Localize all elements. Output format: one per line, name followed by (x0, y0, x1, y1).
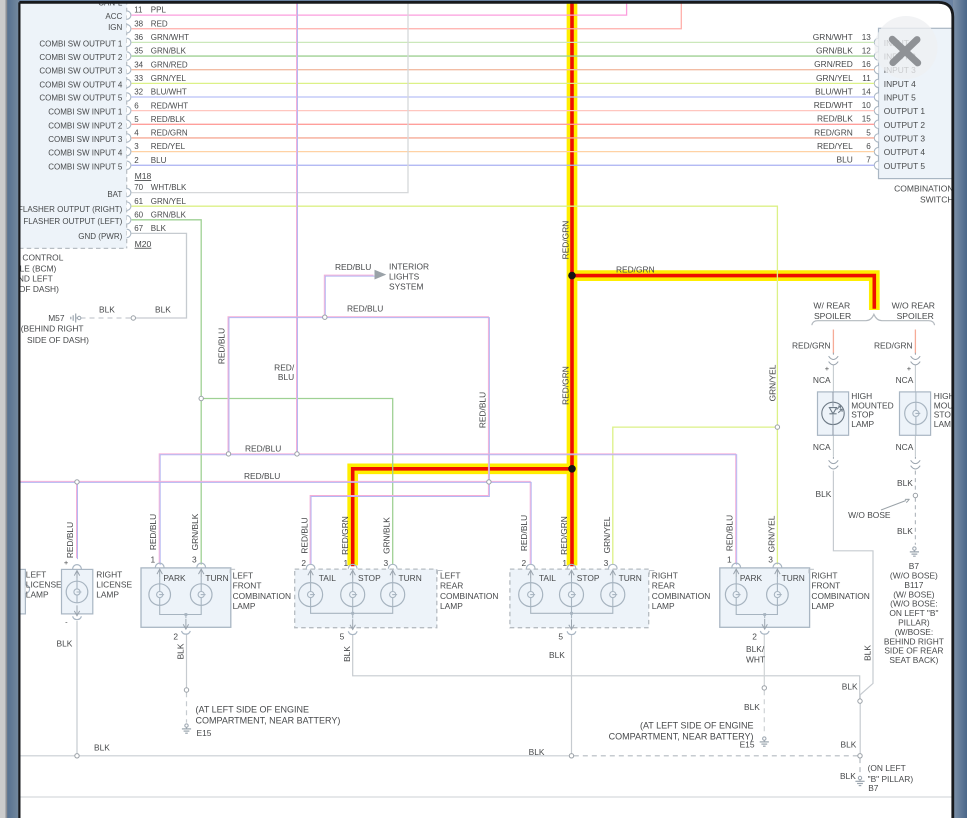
svg-text:RED/BLU: RED/BLU (725, 515, 735, 551)
svg-text:LAMP: LAMP (26, 590, 49, 600)
svg-text:FRONT: FRONT (811, 581, 840, 591)
svg-text:STOP: STOP (358, 573, 381, 583)
svg-text:LICENSE: LICENSE (26, 580, 62, 590)
svg-text:2: 2 (301, 558, 306, 568)
svg-text:38: 38 (134, 19, 143, 28)
wire BLU pin 2 to switch pin 7 (132, 155, 875, 166)
svg-text:GRN/YEL: GRN/YEL (602, 516, 612, 553)
svg-text:7: 7 (866, 156, 871, 165)
wire GRN/YEL pin 33 to switch pin 11 (132, 73, 875, 84)
svg-text:M57: M57 (48, 313, 65, 323)
svg-text:RED/: RED/ (274, 362, 295, 372)
node BLK connector right front (762, 686, 766, 690)
svg-text:RED/BLU: RED/BLU (519, 515, 529, 551)
svg-text:OUTPUT 5: OUTPUT 5 (884, 161, 926, 171)
svg-text:TURN: TURN (399, 573, 422, 583)
ground E15 at left side of engine compartment (right) (609, 721, 769, 750)
svg-text:SWITCH: SWITCH (920, 194, 954, 204)
left license lamp (clipped at page edge) (4, 569, 62, 614)
svg-text:GRN/YEL: GRN/YEL (151, 74, 187, 83)
wire GND (PWR) BLK pin 67 to M57 (81, 224, 187, 318)
svg-text:OUTPUT 2: OUTPUT 2 (884, 120, 926, 130)
svg-text:RED/BLU: RED/BLU (216, 328, 226, 364)
svg-text:BLK: BLK (897, 526, 913, 536)
svg-text:3: 3 (604, 558, 609, 568)
svg-text:PARK: PARK (740, 573, 763, 583)
svg-text:TURN: TURN (782, 573, 805, 583)
svg-text:RED: RED (151, 19, 168, 28)
svg-text:COMBI SW INPUT 4: COMBI SW INPUT 4 (48, 149, 123, 158)
wire FLASHER OUTPUT (RIGHT) GRN/YEL pin 61 (132, 197, 778, 427)
svg-text:FRONT: FRONT (233, 581, 262, 591)
svg-text:COMBI SW OUTPUT 2: COMBI SW OUTPUT 2 (39, 53, 123, 62)
svg-text:2: 2 (752, 631, 757, 641)
wire BLK/WHT right front lamp pin 2 to E15 (744, 635, 765, 736)
wire BLK left front lamp pin 2 to E15 (176, 635, 187, 723)
svg-text:RED/BLK: RED/BLK (817, 114, 853, 124)
svg-text:RIGHT: RIGHT (652, 570, 678, 580)
svg-text:6: 6 (866, 142, 871, 151)
svg-text:INPUT 4: INPUT 4 (884, 79, 916, 89)
svg-text:COMBI SW OUTPUT 3: COMBI SW OUTPUT 3 (39, 67, 123, 76)
node RED/BLU junction right rear tail (487, 480, 491, 484)
svg-text:14: 14 (862, 87, 872, 96)
svg-text:RED/BLU: RED/BLU (300, 517, 310, 553)
svg-text:OUTPUT 4: OUTPUT 4 (884, 147, 926, 157)
svg-text:GRN/WHT: GRN/WHT (813, 32, 853, 42)
svg-text:TAIL: TAIL (539, 573, 556, 583)
svg-text:SPOILER: SPOILER (897, 311, 934, 321)
svg-text:RED/BLU: RED/BLU (335, 262, 371, 272)
svg-text:+: + (825, 364, 830, 373)
svg-text:(ON LEFT: (ON LEFT (868, 763, 906, 773)
svg-text:GND (PWR): GND (PWR) (78, 232, 122, 241)
ground E15 at left side of engine compartment (left) (182, 705, 340, 738)
svg-text:RED/YEL: RED/YEL (817, 141, 853, 151)
svg-text:BLU/WHT: BLU/WHT (151, 88, 187, 97)
wire RED/WHT pin 6 to switch pin 10 (132, 100, 875, 111)
svg-text:61: 61 (134, 197, 143, 206)
interior lights system off-page arrow (375, 261, 430, 291)
svg-text:BLK/: BLK/ (746, 644, 765, 654)
svg-text:NCA: NCA (813, 442, 831, 452)
svg-text:RED/GRN: RED/GRN (874, 340, 913, 350)
svg-text:RED/GRN: RED/GRN (340, 516, 350, 555)
wire BLK left rear lamp pin 5 ground run (342, 635, 860, 700)
svg-text:6: 6 (134, 101, 139, 110)
combination switch connector box (874, 28, 953, 204)
svg-text:BLK: BLK (816, 489, 832, 499)
svg-text:4: 4 (134, 129, 139, 138)
node ground bus right (858, 754, 862, 758)
wire RED/GRN pin 4 to switch pin 5 (132, 127, 875, 138)
wire BAT WHT/BLK pin 70 (132, 0, 409, 193)
svg-text:11: 11 (862, 74, 871, 83)
ground M57 behind right side of dash (21, 313, 89, 345)
svg-text:RED/BLU: RED/BLU (347, 304, 383, 314)
high mounted stop lamp (w/ rear spoiler) LED (818, 353, 894, 469)
svg-text:BLK: BLK (841, 739, 857, 749)
svg-text:LAMP: LAMP (851, 419, 874, 429)
svg-text:BLU: BLU (837, 155, 853, 165)
svg-text:(AT LEFT SIDE OF ENGINE: (AT LEFT SIDE OF ENGINE (640, 721, 754, 731)
svg-text:GRN/YEL: GRN/YEL (767, 364, 777, 401)
svg-text:3: 3 (768, 555, 773, 565)
svg-text:(BEHIND RIGHT: (BEHIND RIGHT (21, 324, 84, 334)
svg-text:RED/GRN: RED/GRN (560, 221, 570, 260)
node BLK connector left front (184, 688, 188, 692)
svg-text:ACC: ACC (105, 12, 122, 21)
svg-text:B7: B7 (868, 783, 879, 793)
node splice on GND BLK wire (131, 316, 135, 320)
svg-text:COMBI SW OUTPUT 5: COMBI SW OUTPUT 5 (39, 94, 123, 103)
wire BLK right license lamp ground (57, 618, 78, 756)
svg-text:E15: E15 (197, 728, 212, 738)
svg-text:1: 1 (344, 558, 349, 568)
wire FLASHER OUTPUT (LEFT) GRN/BLK pin 60 (132, 210, 202, 564)
left rear combination lamp with TAIL STOP TURN bulbs (295, 558, 499, 641)
svg-text:WHT/BLK: WHT/BLK (151, 183, 187, 192)
wire GRN/RED pin 34 to switch pin 16 (132, 59, 875, 70)
svg-text:PARK: PARK (163, 573, 186, 583)
svg-text:RED/WHT: RED/WHT (151, 101, 188, 110)
svg-text:60: 60 (134, 210, 143, 219)
svg-text:36: 36 (134, 33, 143, 42)
svg-text:LAMP: LAMP (96, 590, 119, 600)
wire BLK ground bus to B7 (19, 743, 860, 781)
svg-text:COMBI SW INPUT 2: COMBI SW INPUT 2 (48, 122, 123, 131)
svg-text:BLU: BLU (151, 156, 167, 165)
node W/O BOSE junction (913, 493, 917, 497)
svg-text:W/ REAR: W/ REAR (813, 301, 850, 311)
svg-text:COMBI SW INPUT 3: COMBI SW INPUT 3 (48, 135, 123, 144)
svg-text:COMBINATION: COMBINATION (652, 591, 710, 601)
ground B7/B117 for w/o rear spoiler lamp (884, 547, 944, 665)
svg-text:SYSTEM: SYSTEM (389, 282, 423, 292)
svg-text:REAR: REAR (440, 581, 463, 591)
svg-text:LEFT: LEFT (26, 569, 46, 579)
svg-text:GRN/BLK: GRN/BLK (382, 517, 392, 554)
svg-text:5: 5 (866, 128, 871, 137)
svg-text:GRN/RED: GRN/RED (814, 59, 853, 69)
svg-text:GRN/RED: GRN/RED (151, 60, 188, 69)
svg-text:BLK: BLK (151, 224, 167, 233)
svg-text:W/O BOSE: W/O BOSE (848, 510, 891, 520)
svg-text:PPL: PPL (151, 6, 167, 15)
svg-text:LAMP: LAMP (233, 601, 256, 611)
wire BLU/WHT pin 32 to switch pin 14 (132, 86, 875, 97)
wire CAN-L PPL pin 11 (132, 0, 627, 15)
svg-text:GRN/YEL: GRN/YEL (151, 197, 187, 206)
left front combination lamp with PARK and TURN bulbs (141, 555, 291, 642)
svg-text:2: 2 (522, 558, 527, 568)
right front combination lamp with PARK and TURN bulbs (720, 555, 870, 642)
wire GRN/BLK branch to left rear turn (201, 399, 393, 565)
svg-text:COMBI SW OUTPUT 1: COMBI SW OUTPUT 1 (39, 40, 123, 49)
svg-text:GRN/BLK: GRN/BLK (190, 513, 200, 550)
right rear combination lamp with TAIL STOP TURN bulbs (510, 558, 710, 641)
highlighted wire RED/GRN (stop lamp feed) - yellow trace (353, 0, 875, 566)
svg-text:SIDE OF DASH): SIDE OF DASH) (27, 335, 89, 345)
svg-text:RED/YEL: RED/YEL (151, 142, 186, 151)
svg-text:15: 15 (862, 115, 872, 124)
svg-text:GRN/WHT: GRN/WHT (151, 33, 189, 42)
svg-text:BLU: BLU (278, 372, 294, 382)
svg-text:COMBINATION: COMBINATION (440, 591, 498, 601)
svg-text:2: 2 (134, 156, 139, 165)
svg-text:M18: M18 (135, 171, 152, 181)
svg-text:LAMP: LAMP (652, 601, 675, 611)
node RED/BLU junction at 228 (226, 452, 230, 456)
svg-text:33: 33 (134, 74, 143, 83)
svg-text:TURN: TURN (205, 573, 228, 583)
svg-text:RIGHT: RIGHT (96, 569, 122, 579)
wire RED/BLU main feed from top (274, 0, 297, 454)
svg-text:2: 2 (173, 631, 178, 641)
close button X overlay (875, 16, 938, 79)
svg-text:OUTPUT 3: OUTPUT 3 (884, 133, 926, 143)
high mounted stop lamp (w/o rear spoiler) bulb (900, 353, 967, 469)
svg-text:COMBINATION: COMBINATION (811, 591, 869, 601)
svg-text:M20: M20 (135, 239, 152, 249)
svg-text:BLK: BLK (94, 743, 110, 753)
spoiler option split brace (812, 301, 935, 326)
ground B7 on left B pillar (855, 763, 913, 793)
svg-text:OUTPUT 1: OUTPUT 1 (884, 106, 926, 116)
svg-text:BLK: BLK (99, 305, 115, 315)
svg-text:RED/BLU: RED/BLU (65, 522, 75, 558)
svg-text:BLK: BLK (155, 305, 171, 315)
svg-text:3: 3 (384, 558, 389, 568)
svg-text:LEFT: LEFT (440, 570, 460, 580)
node GRN/YEL split (775, 425, 779, 429)
svg-text:RED/BLU: RED/BLU (477, 392, 487, 428)
svg-text:LAMP: LAMP (440, 601, 463, 611)
svg-text:RED/WHT: RED/WHT (814, 100, 853, 110)
svg-text:67: 67 (134, 224, 143, 233)
svg-text:COMBINATION: COMBINATION (894, 183, 953, 193)
wire RED/BLK pin 5 to switch pin 15 (132, 114, 875, 125)
svg-text:13: 13 (862, 33, 872, 42)
wire RED/BLU to left front park and right front park (148, 444, 736, 565)
svg-text:(AT LEFT SIDE OF ENGINE: (AT LEFT SIDE OF ENGINE (196, 705, 310, 715)
svg-text:RED/BLK: RED/BLK (151, 115, 186, 124)
svg-text:RED/BLU: RED/BLU (245, 444, 281, 454)
right license lamp (62, 565, 133, 620)
svg-text:5: 5 (340, 631, 345, 641)
svg-text:WHT: WHT (746, 655, 765, 665)
svg-text:NCA: NCA (896, 442, 914, 452)
wire BLK high mounted stop lamp (w/ rear spoiler) ground (833, 471, 873, 754)
svg-text:RIGHT: RIGHT (811, 570, 837, 580)
svg-text:COMBI SW OUTPUT 4: COMBI SW OUTPUT 4 (39, 81, 123, 90)
svg-text:W/O REAR: W/O REAR (892, 301, 935, 311)
svg-text:LIGHTS: LIGHTS (389, 272, 420, 282)
W/O BOSE callout arrow (848, 499, 909, 520)
svg-text:RED/GRN: RED/GRN (814, 127, 853, 137)
svg-text:5: 5 (134, 115, 139, 124)
svg-text:BLK: BLK (840, 771, 856, 781)
svg-text:BLK: BLK (842, 681, 858, 691)
svg-text:GRN/YEL: GRN/YEL (816, 73, 853, 83)
svg-text:SPOILER: SPOILER (814, 311, 851, 321)
svg-text:FLASHER OUTPUT (LEFT): FLASHER OUTPUT (LEFT) (23, 217, 122, 226)
svg-text:BLU/WHT: BLU/WHT (815, 86, 853, 96)
svg-text:+: + (907, 364, 912, 373)
node RED/BLU junction license feed (75, 480, 79, 484)
svg-text:IGN: IGN (108, 23, 122, 32)
svg-text:RED/BLU: RED/BLU (148, 514, 158, 550)
wire ACC RED pin 38 (132, 0, 682, 29)
svg-text:BAT: BAT (107, 190, 122, 199)
svg-text:3: 3 (192, 555, 197, 565)
svg-text:REAR: REAR (652, 581, 675, 591)
svg-text:GRN/YEL: GRN/YEL (766, 515, 776, 552)
svg-text:STOP: STOP (577, 573, 600, 583)
svg-text:70: 70 (134, 183, 143, 192)
svg-text:RED/GRN: RED/GRN (559, 516, 569, 555)
wire RED/BLU mid distribution to left/right rear tail (216, 304, 489, 565)
wire RED/BLU license/tail feed (19, 471, 532, 565)
svg-text:COMPARTMENT, NEAR BATTERY): COMPARTMENT, NEAR BATTERY) (196, 716, 341, 726)
svg-text:FLASHER OUTPUT (RIGHT): FLASHER OUTPUT (RIGHT) (18, 205, 123, 214)
svg-text:COMPARTMENT, NEAR BATTERY): COMPARTMENT, NEAR BATTERY) (609, 732, 754, 742)
wire GRN/YEL drop to right front turn (766, 427, 777, 564)
svg-text:COMBI SW INPUT 5: COMBI SW INPUT 5 (48, 163, 123, 172)
svg-text:LAMP: LAMP (811, 601, 834, 611)
svg-text:3: 3 (134, 142, 139, 151)
wire RED/GRN labels on highlighted trace (340, 221, 654, 555)
wire GRN/WHT pin 36 to switch pin 13 (132, 32, 875, 43)
svg-text:INTERIOR: INTERIOR (389, 261, 429, 271)
svg-text:11: 11 (134, 6, 143, 15)
svg-text:BLK: BLK (57, 638, 73, 648)
svg-text:16: 16 (862, 60, 872, 69)
node ground bus left (75, 754, 79, 758)
svg-text:RED/GRN: RED/GRN (560, 366, 570, 405)
svg-text:NCA: NCA (896, 375, 914, 385)
node BLK junction high mount grounds (858, 699, 862, 703)
svg-text:BLK: BLK (897, 478, 913, 488)
svg-text:INPUT 5: INPUT 5 (884, 93, 916, 103)
wire BLK right rear lamp pin 5 to ground bus (529, 635, 572, 758)
svg-text:10: 10 (862, 101, 872, 110)
svg-text:BLK: BLK (744, 702, 760, 712)
svg-text:5: 5 (558, 631, 563, 641)
svg-text:COMBI SW INPUT 1: COMBI SW INPUT 1 (48, 108, 123, 117)
svg-text:1: 1 (151, 555, 156, 565)
svg-text:32: 32 (134, 88, 143, 97)
node RED/BLU junction at 297 (295, 452, 299, 456)
svg-text:BLK: BLK (176, 643, 186, 659)
svg-text:RED/GRN: RED/GRN (792, 340, 831, 350)
svg-text:COMBINATION: COMBINATION (233, 591, 291, 601)
wire RED/BLU to interior lights system (324, 262, 374, 317)
svg-text:SEAT BACK): SEAT BACK) (889, 655, 938, 665)
wire RED/BLU drop to right license lamp (64, 481, 78, 567)
wire GRN/YEL branch to right rear turn (602, 427, 778, 564)
svg-text:LEFT: LEFT (233, 570, 253, 580)
svg-text:BLK: BLK (549, 650, 565, 660)
wire RED/GRN + BLK high mounted stop lamp (w/o rear spoiler) branch (874, 330, 915, 545)
wire RED/GRN high mounted stop lamp (w/ rear spoiler) stub (792, 330, 833, 500)
svg-text:BLK: BLK (863, 645, 873, 661)
svg-text:GRN/BLK: GRN/BLK (816, 45, 853, 55)
svg-text:RED/GRN: RED/GRN (616, 264, 655, 274)
wire RED/YEL pin 3 to switch pin 6 (132, 141, 875, 152)
svg-text:BLK: BLK (342, 646, 352, 662)
svg-text:+: + (64, 558, 69, 567)
svg-text:1: 1 (562, 558, 567, 568)
svg-text:35: 35 (134, 47, 143, 56)
svg-text:1: 1 (727, 555, 732, 565)
svg-text:34: 34 (134, 60, 143, 69)
wire GRN/BLK pin 35 to switch pin 12 (132, 45, 875, 56)
svg-text:LICENSE: LICENSE (96, 580, 132, 590)
node RED/BLU junction interior lights (323, 315, 327, 319)
svg-text:12: 12 (862, 46, 872, 55)
BCM connector box (M18/M20) with pins, behind left side of dash (0, 0, 152, 294)
svg-text:GRN/BLK: GRN/BLK (151, 47, 187, 56)
svg-text:GRN/BLK: GRN/BLK (151, 210, 187, 219)
node GRN/BLK split (199, 396, 203, 400)
svg-text:TAIL: TAIL (319, 573, 336, 583)
svg-text:E15: E15 (740, 739, 755, 749)
node ground bus center (569, 754, 573, 758)
svg-text:NCA: NCA (813, 375, 831, 385)
node highlighted junction upper (568, 272, 576, 280)
svg-text:RED/GRN: RED/GRN (151, 129, 188, 138)
svg-text:TURN: TURN (619, 573, 642, 583)
node highlighted junction lower (568, 465, 576, 473)
svg-text:RED/BLU: RED/BLU (244, 471, 280, 481)
